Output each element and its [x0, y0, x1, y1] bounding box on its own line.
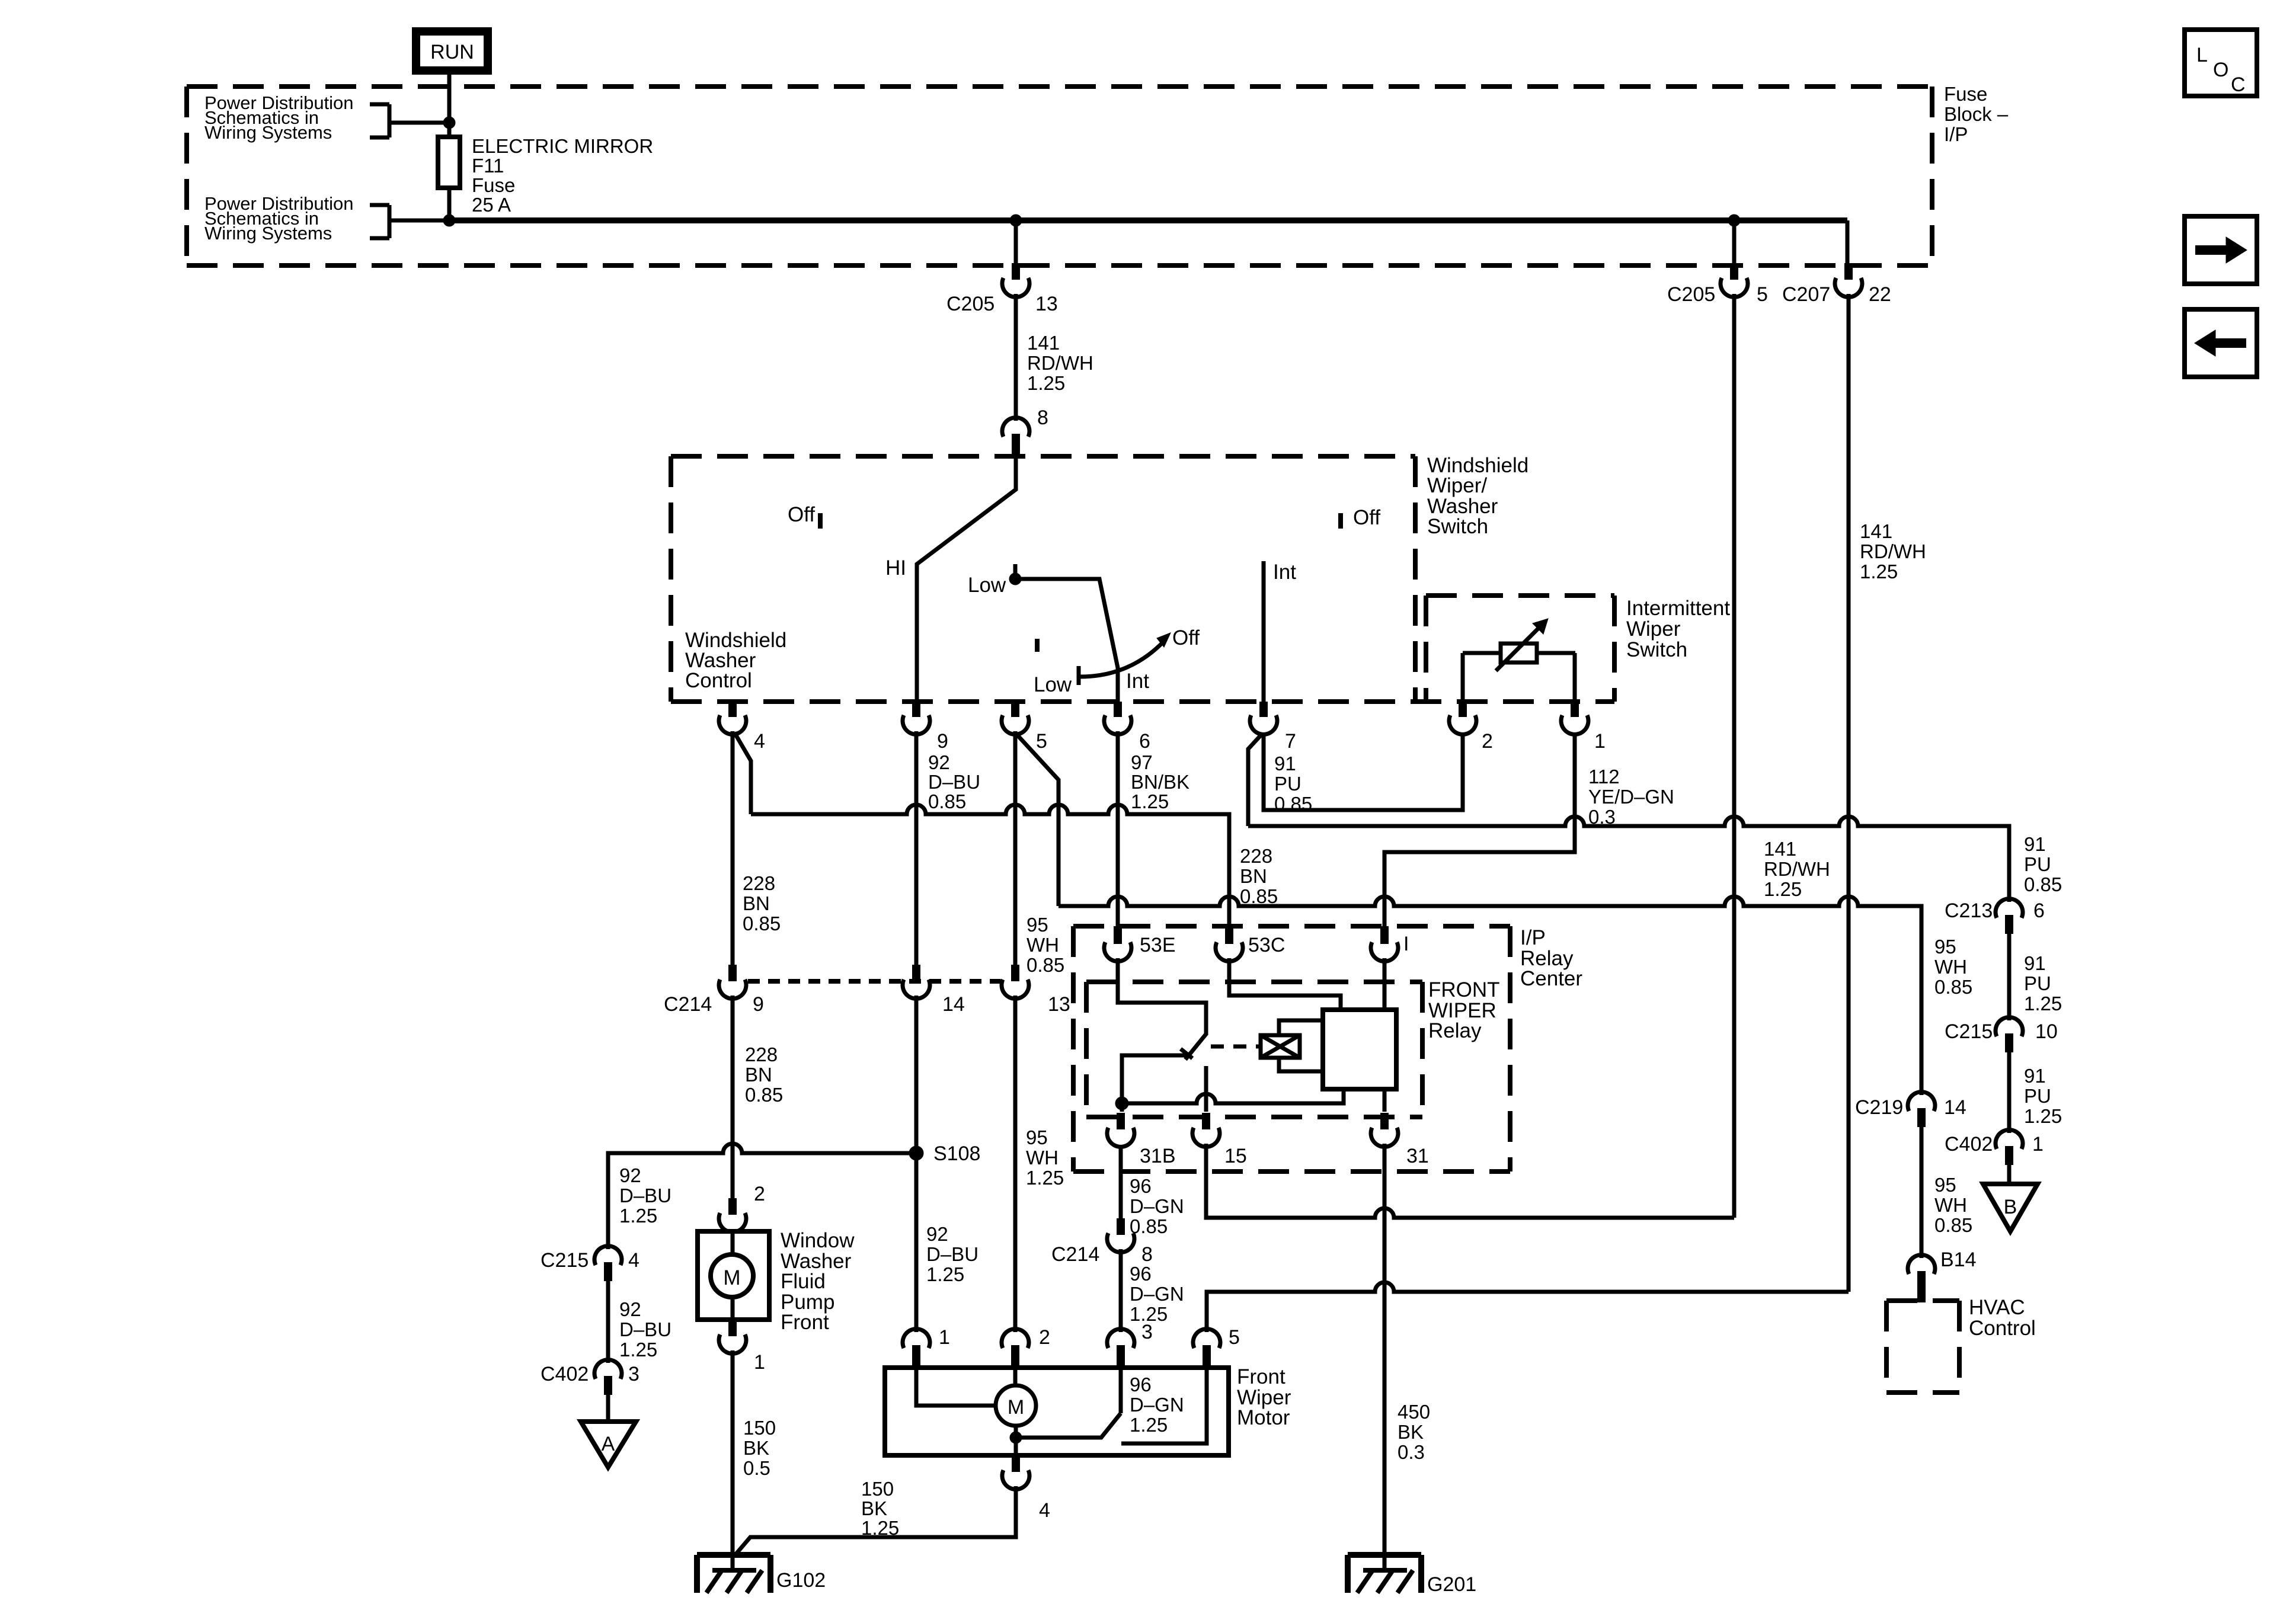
- label: FRONT WIPER Relay: [1428, 978, 1500, 1042]
- svg-text:150: 150: [861, 1478, 894, 1500]
- svg-text:Fluid: Fluid: [781, 1270, 826, 1293]
- label: 141 RD/WH 1.25 (center col): [1027, 332, 1093, 394]
- label: I/P Relay Center: [1520, 926, 1582, 990]
- svg-text:13: 13: [1048, 993, 1070, 1016]
- label: 150 BK 0.5: [743, 1417, 776, 1479]
- label: Power Distribution Schematics in Wiring Systems (lower): [204, 193, 354, 244]
- node: junction dot at C205-5 tap: [1728, 215, 1740, 226]
- relay coil with X: [1261, 1035, 1300, 1058]
- connector pin 4 (washer control): [719, 702, 765, 753]
- wire: feed corner down to C207-22: [1846, 220, 1850, 263]
- label: Window Washer Fluid Pump Front: [781, 1229, 855, 1334]
- relay internal: common L and junction: [1122, 1055, 1188, 1103]
- svg-text:D–BU: D–BU: [928, 771, 980, 793]
- svg-text:14: 14: [1944, 1096, 1966, 1119]
- label: Intermittent Wiper Switch: [1626, 597, 1730, 661]
- svg-text:RD/WH: RD/WH: [1027, 352, 1093, 374]
- label: 228 BN 0.85 (53C wire): [1240, 845, 1278, 907]
- svg-text:BN/BK: BN/BK: [1131, 771, 1189, 793]
- connector pump pin 2: [719, 1183, 765, 1232]
- svg-text:BK: BK: [1398, 1421, 1424, 1443]
- wire: C207-22 feed down right side: [1847, 294, 1851, 1292]
- connector C214-9: [664, 965, 764, 1016]
- svg-text:95: 95: [1934, 936, 1956, 958]
- svg-text:S108: S108: [933, 1142, 980, 1165]
- svg-text:1.25: 1.25: [1860, 561, 1898, 582]
- svg-text:0.85: 0.85: [1934, 1214, 1972, 1236]
- C214 dotted connector line: [748, 979, 1000, 984]
- wire: 95 WH bus to C219 (with hops): [1059, 897, 1921, 1095]
- wire: low contact to mode arm to pin 6: [1015, 579, 1118, 702]
- relay internal: 53E to switch contact: [1118, 958, 1206, 1035]
- svg-text:0.85: 0.85: [1934, 976, 1972, 998]
- svg-text:Control: Control: [1969, 1317, 2036, 1340]
- svg-text:BK: BK: [743, 1437, 769, 1459]
- connector C205-13: [946, 263, 1058, 315]
- tick: mode position I: [1035, 639, 1040, 652]
- svg-text:95: 95: [1934, 1174, 1956, 1196]
- ground reference triangle B: [1983, 1184, 2038, 1231]
- svg-text:97: 97: [1131, 751, 1153, 773]
- svg-text:5: 5: [1757, 283, 1768, 306]
- relay internal: NO contact to pin 15: [1204, 1066, 1208, 1112]
- svg-text:9: 9: [753, 993, 764, 1016]
- svg-text:ELECTRIC MIRROR: ELECTRIC MIRROR: [472, 135, 653, 157]
- svg-text:D–GN: D–GN: [1130, 1195, 1184, 1217]
- pump motor circle M: [711, 1254, 753, 1297]
- svg-text:5: 5: [1036, 730, 1047, 753]
- svg-text:C207: C207: [1782, 283, 1830, 306]
- svg-text:31: 31: [1406, 1145, 1429, 1167]
- connector C402-3: [541, 1360, 639, 1395]
- svg-text:C213: C213: [1945, 900, 1993, 922]
- svg-text:1.25: 1.25: [619, 1339, 657, 1361]
- svg-text:92: 92: [619, 1164, 641, 1186]
- wire: 141 RD/WH from C205-13 to connector 8: [1014, 294, 1018, 421]
- wire: C214-8 to motor pin 3: [1119, 1249, 1123, 1332]
- fuse F11 ELECTRIC MIRROR 25A: [438, 137, 460, 188]
- label: Windshield Wiper/Washer Switch: [1427, 454, 1528, 538]
- svg-text:15: 15: [1224, 1145, 1247, 1167]
- svg-text:91: 91: [2024, 1065, 2046, 1087]
- svg-text:0.85: 0.85: [2024, 873, 2062, 895]
- svg-text:96: 96: [1130, 1263, 1152, 1285]
- svg-text:31B: 31B: [1140, 1145, 1176, 1167]
- svg-text:Wiring Systems: Wiring Systems: [204, 223, 332, 244]
- svg-text:1.25: 1.25: [1027, 372, 1065, 394]
- label: Off (right) with tick: [1341, 506, 1380, 529]
- motor internal: pin 2 to motor: [1013, 1370, 1018, 1385]
- connector 15 (relay): [1192, 1113, 1247, 1167]
- svg-text:PU: PU: [1274, 773, 1302, 795]
- connector pin 7: [1250, 702, 1296, 753]
- svg-text:0.85: 0.85: [928, 790, 966, 812]
- svg-text:53E: 53E: [1140, 934, 1176, 956]
- Window Washer Fluid Pump box: [698, 1231, 769, 1320]
- wire: junction down to 31B: [1120, 1103, 1124, 1112]
- svg-text:91: 91: [2024, 833, 2046, 855]
- relay internal: switch blade: [1181, 1034, 1206, 1060]
- connector C214-8: [1051, 1218, 1153, 1266]
- svg-text:0.85: 0.85: [745, 1084, 783, 1106]
- label: Windshield Washer Control: [685, 629, 786, 692]
- svg-text:Block –: Block –: [1944, 103, 2009, 125]
- motor internal: park switch arm to pin 3: [1016, 1370, 1121, 1438]
- svg-text:C205: C205: [1667, 283, 1715, 306]
- svg-text:M: M: [723, 1266, 740, 1289]
- label: HVAC Control: [1969, 1296, 2036, 1340]
- svg-text:25 A: 25 A: [472, 194, 511, 216]
- label: 141 RD/WH 1.25 (C207-22 col): [1860, 520, 1926, 582]
- svg-text:Intermittent: Intermittent: [1626, 597, 1730, 620]
- svg-text:D–GN: D–GN: [1130, 1394, 1184, 1416]
- wire: C205-5 feed down right side: [1732, 294, 1737, 1218]
- connector motor pin 3: [1107, 1329, 1134, 1370]
- svg-text:Front: Front: [781, 1311, 829, 1334]
- wire: motor pin 4 to G102 (150 BK): [737, 1486, 1016, 1553]
- svg-text:0.85: 0.85: [1240, 885, 1278, 907]
- svg-text:C215: C215: [541, 1249, 589, 1272]
- svg-text:HVAC: HVAC: [1969, 1296, 2025, 1319]
- svg-text:O: O: [2213, 59, 2228, 81]
- svg-text:141: 141: [1860, 520, 1892, 542]
- svg-text:L: L: [2196, 44, 2208, 66]
- svg-text:4: 4: [628, 1249, 639, 1272]
- wire: pin 9 down to C214-14: [914, 731, 919, 965]
- svg-text:1: 1: [1594, 730, 1606, 753]
- svg-text:D–GN: D–GN: [1130, 1283, 1184, 1305]
- wire: feed down to C205-5: [1732, 220, 1737, 263]
- connector motor pin 1: [903, 1326, 950, 1370]
- label: 150 BK 1.25: [861, 1478, 899, 1539]
- connector 31 (relay): [1371, 1113, 1429, 1167]
- connector 53E (relay): [1104, 926, 1176, 961]
- label: 92 D-BU 1.25 (lower): [619, 1298, 671, 1361]
- svg-text:Fuse: Fuse: [1944, 83, 1987, 105]
- label: Low (lower) with tick: [1034, 666, 1079, 696]
- connector 53C (relay): [1216, 926, 1285, 961]
- wire fuse bottom to power feed line: [447, 188, 452, 220]
- HVAC Control dashed box: [1886, 1301, 1959, 1393]
- connector C219-14: [1855, 1092, 1966, 1127]
- Front Wiper Motor box: [885, 1368, 1229, 1455]
- svg-text:Motor: Motor: [1237, 1406, 1290, 1429]
- svg-text:1.25: 1.25: [926, 1263, 964, 1285]
- connector pin 9: [903, 702, 948, 753]
- svg-text:Window: Window: [781, 1229, 855, 1252]
- svg-text:4: 4: [1039, 1499, 1050, 1522]
- label: 141 RD/WH 1.25 (right of C205-5 col): [1764, 838, 1830, 900]
- relay body box: [1323, 1010, 1396, 1089]
- label: 96 D-GN 1.25 (inside motor): [1130, 1374, 1184, 1436]
- I/P Relay Center dashed box: [1073, 926, 1510, 1172]
- wire: C207-22 feed across to motor pin 5 (hop over 450 BK): [1207, 1282, 1849, 1332]
- wire: S108 branch left to C215-4 (hop over 228 BN): [608, 1144, 916, 1249]
- svg-text:1.25: 1.25: [1131, 790, 1169, 812]
- label: 112 YE/D-GN 0.3 (pin 1): [1588, 766, 1674, 828]
- svg-text:1: 1: [754, 1351, 765, 1374]
- connector 31B (relay): [1107, 1113, 1176, 1167]
- bracket to Power Distribution (upper): [370, 104, 449, 137]
- svg-text:1.25: 1.25: [1764, 878, 1802, 900]
- ground G102: [697, 1555, 826, 1593]
- wire: Low contact stub and dot: [1009, 564, 1021, 585]
- svg-text:C215: C215: [1945, 1020, 1993, 1043]
- svg-text:WH: WH: [1934, 956, 1967, 978]
- svg-text:3: 3: [628, 1363, 639, 1385]
- svg-text:C219: C219: [1855, 1096, 1903, 1119]
- svg-text:228: 228: [1240, 845, 1272, 867]
- connector C402-1: [1945, 1130, 2044, 1165]
- node: junction dot at bracket tap: [443, 117, 455, 129]
- node: splice S108: [909, 1142, 980, 1165]
- wire: pin 5 branch diagonal to 95 WH bus: [1017, 735, 1059, 906]
- svg-text:13: 13: [1035, 293, 1058, 315]
- motor internal: junction down to pin 4: [1014, 1438, 1018, 1455]
- label: 96 D-GN 0.85: [1130, 1175, 1184, 1237]
- svg-text:Switch: Switch: [1626, 638, 1687, 661]
- svg-text:C214: C214: [664, 993, 712, 1016]
- svg-text:92: 92: [928, 751, 950, 773]
- svg-text:Int: Int: [1126, 670, 1149, 693]
- svg-text:Off: Off: [1172, 626, 1200, 649]
- svg-text:1.25: 1.25: [2024, 1105, 2062, 1127]
- svg-text:A: A: [602, 1433, 615, 1455]
- svg-text:B: B: [2004, 1196, 2017, 1218]
- connector pin 6: [1104, 702, 1150, 753]
- svg-text:PU: PU: [2024, 853, 2051, 875]
- node: motor junction dot: [1010, 1432, 1022, 1443]
- wire: pump pin 1 to G102 (150 BK): [731, 1350, 735, 1570]
- svg-text:3: 3: [1141, 1321, 1153, 1343]
- label: 97 BN/BK 1.25 (pin 6): [1131, 751, 1189, 812]
- relay internal: body bottom to pin 31: [1383, 1089, 1387, 1112]
- svg-text:Switch: Switch: [1427, 515, 1488, 538]
- wire: 15 down and right to C205-5 feed: [1206, 1144, 1734, 1218]
- wire: S108 down to motor pin 1 (92 D-BU): [914, 1153, 919, 1332]
- Intermittent Wiper Switch dashed box: [1426, 596, 1614, 702]
- connector pin 5: [1002, 702, 1047, 753]
- svg-text:WH: WH: [1026, 1147, 1059, 1169]
- relay internal: I to body top: [1383, 958, 1387, 1010]
- wire: C214-9 to pump pin 2 (228 BN): [731, 996, 735, 1198]
- svg-text:C402: C402: [1945, 1133, 1993, 1156]
- svg-text:2: 2: [1039, 1326, 1050, 1349]
- connector motor pin 4: [1002, 1455, 1050, 1522]
- wire: pin 5 down to C214-13: [1013, 731, 1018, 965]
- wire: switch feed entering box, HI contact: [917, 456, 1016, 702]
- svg-text:0.85: 0.85: [1027, 954, 1064, 976]
- svg-text:22: 22: [1869, 283, 1891, 306]
- RUN ignition switch box: [416, 31, 488, 71]
- svg-text:112: 112: [1588, 766, 1620, 788]
- pump wire into motor: [731, 1229, 735, 1254]
- wire: pin 1 down and across to relay I: [1384, 732, 1575, 926]
- svg-text:96: 96: [1130, 1175, 1152, 1197]
- svg-text:53C: 53C: [1248, 934, 1285, 956]
- node: junction dot at C205-13 tap: [1010, 215, 1022, 226]
- svg-text:Fuse: Fuse: [472, 174, 515, 196]
- FRONT WIPER Relay dashed box: [1086, 982, 1422, 1117]
- svg-text:Off: Off: [788, 503, 815, 526]
- relay internal: 53C to body: [1229, 958, 1341, 1010]
- svg-text:1: 1: [2032, 1133, 2044, 1156]
- connector C214-14: [903, 965, 965, 1016]
- connector C213-6: [1945, 899, 2045, 934]
- node: junction dot fuse output: [443, 215, 455, 226]
- svg-text:Front: Front: [1237, 1365, 1285, 1388]
- svg-text:BN: BN: [743, 892, 770, 914]
- node: relay junction dot: [1115, 1097, 1128, 1110]
- svg-text:C: C: [2231, 73, 2246, 96]
- mode selector arc with Off arrow: [1080, 633, 1171, 677]
- svg-text:C214: C214: [1051, 1243, 1099, 1266]
- svg-text:0.85: 0.85: [743, 913, 781, 934]
- svg-text:BN: BN: [1240, 865, 1267, 887]
- svg-text:Relay: Relay: [1428, 1019, 1482, 1042]
- svg-text:I/P: I/P: [1944, 123, 1968, 145]
- svg-text:M: M: [1008, 1396, 1024, 1419]
- svg-text:FRONT: FRONT: [1428, 978, 1500, 1001]
- wire: pin 4 down to C214-9: [731, 731, 735, 965]
- label: 95 WH 1.25: [1026, 1126, 1064, 1189]
- wire: pin 7 branch to 91 PU bus: [1248, 734, 1262, 826]
- svg-text:B14: B14: [1940, 1249, 1977, 1271]
- svg-text:YE/D–GN: YE/D–GN: [1588, 786, 1674, 808]
- svg-text:141: 141: [1764, 838, 1796, 860]
- svg-text:92: 92: [926, 1223, 948, 1245]
- svg-text:1.25: 1.25: [1130, 1414, 1168, 1436]
- wire: C402-1 to triangle B: [2007, 1165, 2012, 1184]
- svg-text:HI: HI: [885, 556, 906, 580]
- Windshield Wiper/Washer Switch dashed box: [671, 456, 1614, 702]
- wire: 141 RD/WH power feed line: [449, 217, 1847, 223]
- svg-text:150: 150: [743, 1417, 776, 1439]
- svg-text:Control: Control: [685, 669, 752, 692]
- wire: Int contact to pin 7: [1262, 561, 1266, 702]
- svg-text:PU: PU: [2024, 972, 2051, 994]
- svg-text:2: 2: [1482, 730, 1493, 753]
- svg-text:PU: PU: [2024, 1085, 2051, 1107]
- label: 92 D-BU 1.25 (S108 to motor): [926, 1223, 978, 1285]
- svg-text:WH: WH: [1027, 934, 1059, 956]
- wire: C215-10 to C402-1: [2007, 1052, 2012, 1133]
- connector C215-10: [1945, 1017, 2058, 1052]
- label: 228 BN 0.85 (pin 4 wire): [743, 872, 781, 934]
- svg-text:Wiring Systems: Wiring Systems: [204, 122, 332, 143]
- svg-text:G201: G201: [1427, 1573, 1476, 1596]
- svg-text:Int: Int: [1273, 561, 1296, 584]
- svg-text:95: 95: [1027, 914, 1048, 936]
- svg-text:G102: G102: [776, 1569, 826, 1592]
- connector pump pin 1: [719, 1320, 765, 1374]
- ground reference triangle A: [581, 1422, 636, 1467]
- connector pin 1 (intermittent): [1561, 702, 1606, 753]
- connector pin 2 (intermittent): [1449, 702, 1493, 753]
- wire: feed down to C205-13: [1014, 220, 1018, 263]
- svg-text:92: 92: [619, 1298, 641, 1320]
- label: 92 D-BU 0.85 (pin 9): [928, 751, 980, 812]
- motor internal: pin 5 contact: [1121, 1370, 1207, 1443]
- label: 96 D-GN 1.25: [1130, 1263, 1184, 1325]
- wire: pin 6 down to 53E: [1116, 731, 1120, 926]
- label: 91 PU 1.25 (lower): [2024, 1065, 2062, 1127]
- wire: C219-14 to B14: [1920, 1127, 1924, 1258]
- svg-text:0.5: 0.5: [743, 1457, 770, 1479]
- label: 91 PU 0.85 (pin 7): [1274, 753, 1312, 815]
- connector C214-13: [1002, 965, 1070, 1016]
- svg-text:96: 96: [1130, 1374, 1152, 1395]
- svg-text:5: 5: [1229, 1326, 1240, 1349]
- connector motor pin 5: [1193, 1326, 1240, 1370]
- label: Front Wiper Motor: [1237, 1365, 1291, 1429]
- connector C207-22: [1782, 263, 1891, 306]
- wiper motor circle M: [996, 1385, 1036, 1426]
- coil bracket into relay body: [1279, 1020, 1323, 1071]
- label: 95 WH 0.85 (C219 wire): [1934, 936, 1972, 998]
- svg-text:228: 228: [743, 872, 775, 894]
- wire: C402-3 to triangle A: [606, 1395, 610, 1422]
- connector I (relay): [1371, 926, 1409, 961]
- connector B14: [1908, 1249, 1977, 1302]
- ground G201: [1348, 1555, 1476, 1596]
- label: Fuse Block - I/P: [1944, 83, 2009, 145]
- svg-text:10: 10: [2035, 1020, 2058, 1043]
- wire: resistor legs to pins 2 and 1: [1463, 653, 1575, 702]
- svg-text:WH: WH: [1934, 1194, 1967, 1216]
- svg-text:8: 8: [1037, 406, 1048, 429]
- svg-text:BN: BN: [745, 1064, 772, 1086]
- svg-text:D–BU: D–BU: [926, 1243, 978, 1265]
- LOC box: [2185, 30, 2257, 96]
- svg-text:228: 228: [745, 1044, 778, 1065]
- label: Power Distribution Schematics in Wiring Systems (upper): [204, 92, 354, 143]
- wire: pin 4 branch diagonal to 228 BN bus: [734, 732, 751, 814]
- wire RUN to fuse F11: [447, 71, 452, 137]
- svg-text:91: 91: [1274, 753, 1296, 774]
- connector motor pin 2: [1002, 1326, 1050, 1370]
- svg-text:C205: C205: [946, 293, 994, 315]
- svg-text:7: 7: [1285, 730, 1296, 753]
- connector C215-4: [541, 1246, 639, 1281]
- wire: 31 down to G201 (450 BK): [1383, 1144, 1387, 1570]
- wire: C214-14 to S108: [914, 996, 919, 1153]
- svg-text:I: I: [1403, 933, 1409, 955]
- label: 91 PU 0.85 (C213 wire): [2024, 833, 2062, 895]
- svg-text:1.25: 1.25: [1026, 1167, 1064, 1189]
- label: 95 WH 0.85 (pin 5 wire): [1027, 914, 1064, 976]
- svg-text:95: 95: [1026, 1126, 1048, 1148]
- label: 91 PU 1.25: [2024, 952, 2062, 1014]
- svg-text:141: 141: [1027, 332, 1060, 354]
- right arrow nav box: [2185, 216, 2257, 284]
- svg-text:6: 6: [1139, 730, 1150, 753]
- connector C205-5: [1667, 263, 1768, 306]
- motor internal: motor to junction: [1014, 1426, 1018, 1438]
- svg-text:1.25: 1.25: [2024, 993, 2062, 1014]
- svg-text:1.25: 1.25: [861, 1517, 899, 1539]
- svg-text:Low: Low: [1034, 673, 1072, 696]
- svg-text:1.25: 1.25: [619, 1205, 657, 1227]
- svg-text:0.3: 0.3: [1398, 1441, 1425, 1463]
- label: Off (washer, left) with tick: [788, 503, 820, 529]
- bracket to Power Distribution (lower): [370, 205, 449, 238]
- variable resistor (intermittent delay): [1463, 619, 1575, 671]
- wire: pin 7 U-link to pin 2: [1264, 732, 1463, 810]
- wire: 31B down to C214-8: [1119, 1145, 1123, 1218]
- motor internal: pin 1 to motor: [916, 1370, 996, 1406]
- svg-text:9: 9: [937, 730, 948, 753]
